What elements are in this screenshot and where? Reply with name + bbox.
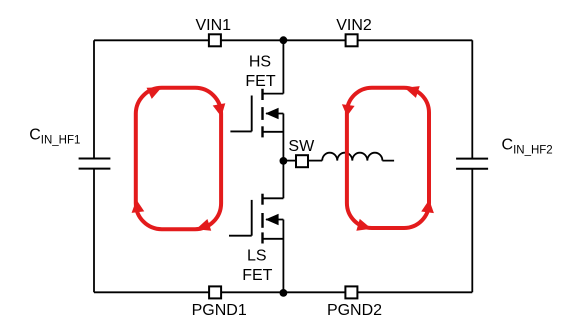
loop 2 arrow left (points down) [341,104,355,117]
capacitor C_IN_HF1 [79,159,111,169]
svg-text:LS: LS [247,248,267,265]
wire LS FET body/source vertical to bottom bus [282,220,284,293]
transistor LS FET (channel dashes) [261,194,263,244]
svg-text:VIN1: VIN1 [196,17,232,34]
loop 1 arrow left (points up) [130,199,144,213]
wire LS FET body lead [266,219,283,221]
wire HS FET drain lead [262,93,283,95]
terminal PGND1 [209,286,221,298]
wire left vertical (top bus to C_IN_HF1 top plate) [93,40,95,158]
loop 2 arrow top (points left) [403,82,420,98]
transistor LS FET gate [229,200,252,236]
svg-text:VIN2: VIN2 [336,17,372,34]
wire LS FET drain lead [262,197,283,199]
wire right vertical (top bus to C_IN_HF2 top plate) [471,40,473,158]
wire center vertical VIN node to HS FET drain [282,40,284,93]
svg-text:FET: FET [245,73,275,90]
svg-text:PGND2: PGND2 [327,302,382,319]
loop 1 arrow top (points right) [147,82,165,99]
wire HS FET body lead [266,113,283,115]
svg-text:FET: FET [242,267,272,284]
node PGND junction dot [280,289,288,297]
terminal VIN2 [346,34,358,46]
terminal SW [296,155,308,167]
loop 2 arrow bottom (points right) [356,219,373,235]
inductor L (SW output) [322,153,394,161]
wire right vertical (C_IN_HF2 bottom plate to bottom bus) [471,169,473,293]
svg-text:HS: HS [249,54,271,71]
loop 1 arrow bottom (points left) [194,219,211,235]
wire HS FET body/source vertical to SW node [282,114,284,161]
node VIN junction dot [280,36,288,44]
wire SW node to LS FET drain [282,161,284,199]
transistor HS FET (channel dashes) [261,89,263,138]
transistor HS FET body-diode arrow [265,108,278,119]
terminal PGND2 [345,286,357,298]
svg-text:SW: SW [288,138,315,155]
current loop 1 (left, clockwise) [136,88,221,229]
wire left vertical (C_IN_HF1 bottom plate to bottom bus) [93,169,95,293]
wire top bus VIN [94,39,472,41]
loop 1 arrow right (points down) [213,103,228,118]
current loop 2 (right, counterclockwise) [347,88,429,228]
transistor LS FET body-diode arrow [265,214,278,225]
loop 2 arrow right (points up) [421,199,435,213]
wire LS FET source lead [262,238,283,240]
terminal VIN1 [209,34,221,46]
svg-text:PGND1: PGND1 [192,302,247,319]
capacitor C_IN_HF2 [456,159,488,169]
wire SW node to SW terminal [283,160,296,162]
wire SW terminal to inductor [308,160,322,162]
node SW junction dot [280,157,288,165]
wire bottom bus PGND [94,291,472,293]
transistor HS FET gate [230,96,251,132]
wire HS FET source lead [262,131,283,133]
